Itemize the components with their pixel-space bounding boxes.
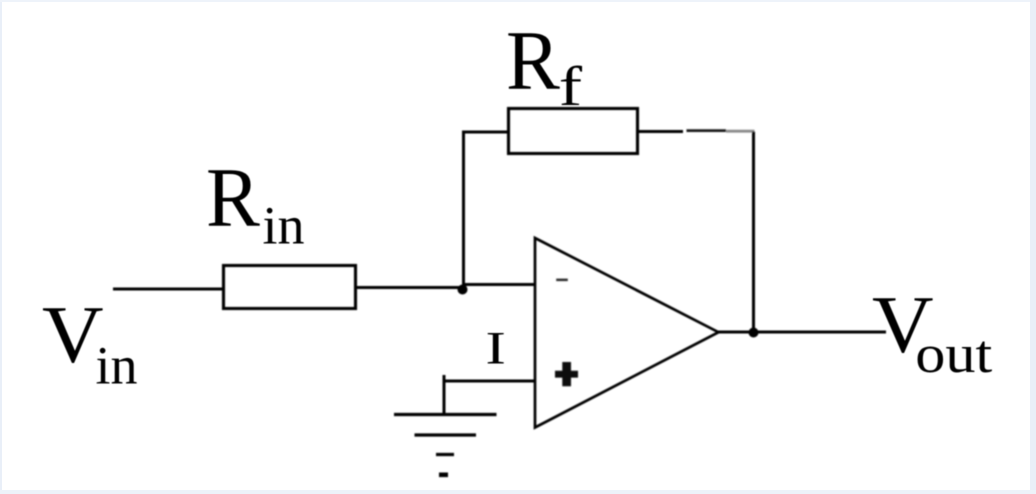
svg-text:I: I xyxy=(486,321,506,374)
ground stem xyxy=(443,375,446,415)
svg-text:out: out xyxy=(915,325,992,384)
wire riser node A up to Rf xyxy=(462,131,465,290)
resistor Rf body xyxy=(509,109,638,154)
wire feedback riser down to output node xyxy=(752,132,755,334)
node A junction dot xyxy=(458,285,468,295)
svg-text:f: f xyxy=(559,55,583,117)
svg-text:R: R xyxy=(206,150,261,244)
wire Rf right lead gray segment xyxy=(726,130,755,133)
ground bar 3 xyxy=(436,453,454,456)
svg-text:in: in xyxy=(96,336,138,396)
page edge bottom xyxy=(0,490,1036,494)
svg-text:in: in xyxy=(263,196,305,256)
wire Rf left lead xyxy=(462,131,509,134)
op-amp U1 triangle xyxy=(535,238,719,428)
op-amp plus sign xyxy=(555,362,578,386)
op-amp minus sign xyxy=(556,279,568,282)
svg-text:V: V xyxy=(42,289,104,380)
ground bar 4 xyxy=(439,472,448,477)
wire node A to op-amp inverting input xyxy=(462,283,535,286)
ground bar 1 xyxy=(394,413,497,416)
node B output junction dot xyxy=(749,328,759,338)
wire input lead xyxy=(113,288,224,291)
wire op-amp noninverting input xyxy=(444,380,535,383)
wire Rin to node A xyxy=(356,286,464,289)
resistor Rin body xyxy=(224,266,356,309)
page edge top xyxy=(0,0,1036,2)
svg-text:R: R xyxy=(506,13,561,107)
wire Rf right lead dark segment xyxy=(687,129,727,132)
wire Rf right lead black segment xyxy=(637,130,683,133)
page edge right xyxy=(1030,0,1036,494)
page edge left xyxy=(0,0,2,494)
wire output lead xyxy=(718,331,886,334)
ground bar 2 xyxy=(415,433,477,436)
